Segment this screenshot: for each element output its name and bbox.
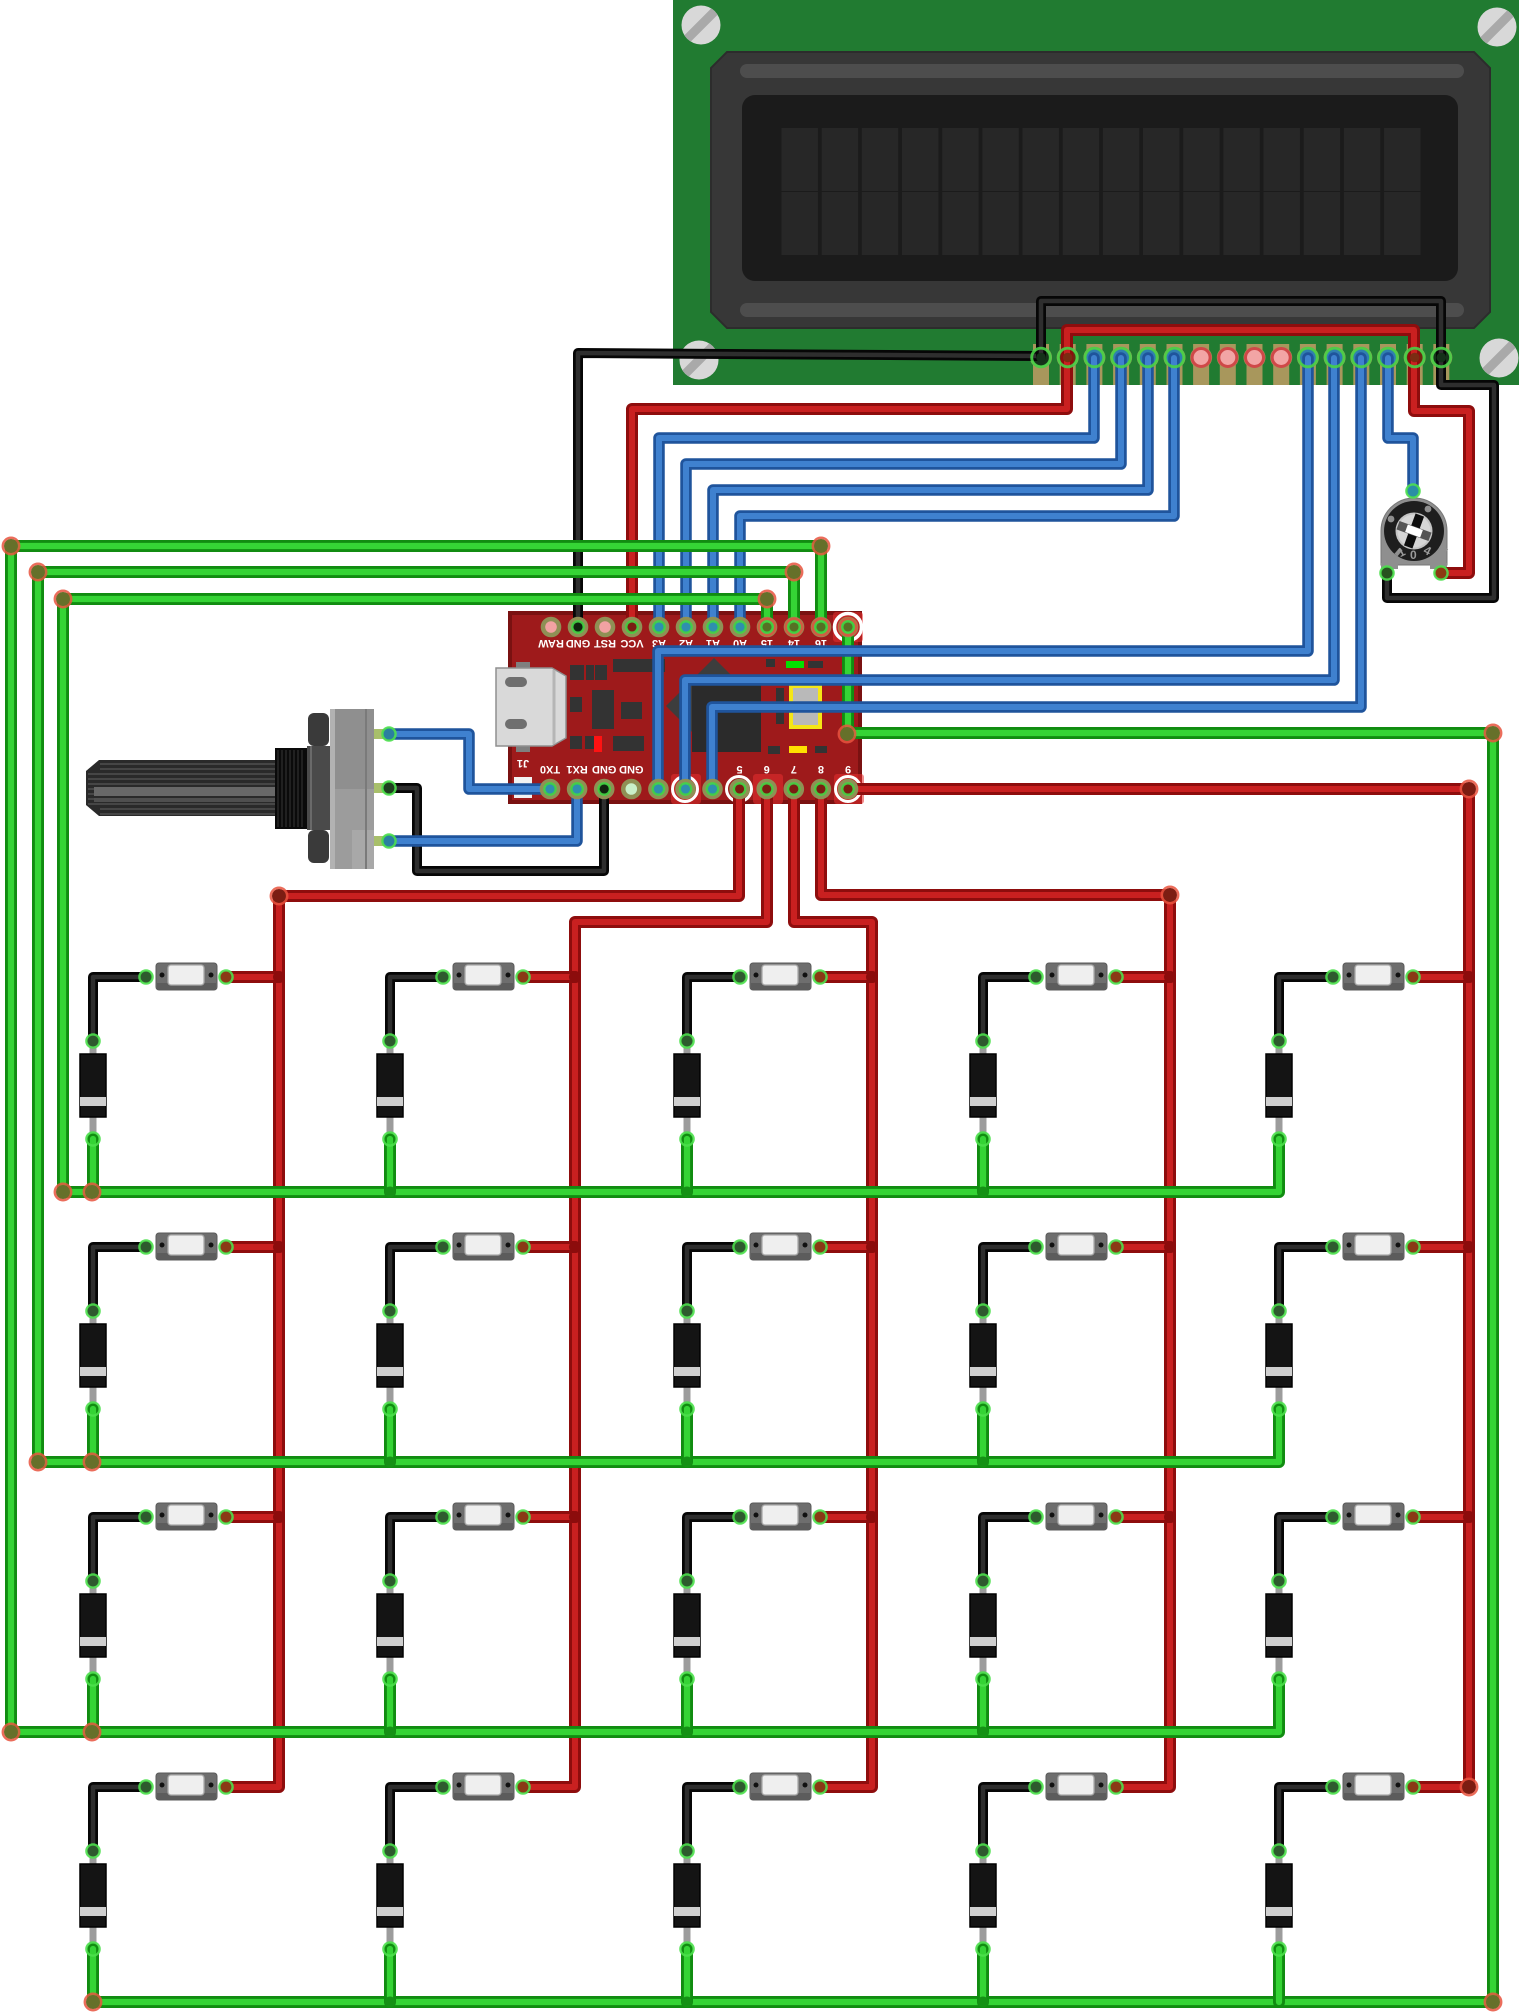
diode D12 <box>377 1575 403 1685</box>
switch S4 <box>1030 963 1122 990</box>
switch S18 <box>734 1773 826 1800</box>
wire diode row1 col2 to ground bus stub <box>384 1139 396 1192</box>
switch S15 <box>1327 1503 1419 1530</box>
wire switch row2 col1 to column bus stub <box>226 1241 279 1253</box>
svg-text:RAW: RAW <box>538 637 564 649</box>
wire diode row4 col4 to ground bus stub <box>977 1949 989 2002</box>
LED2 green LED <box>786 661 804 668</box>
wire switch row1 col5 to column bus stub <box>1413 971 1469 983</box>
RV2 trim potentiometer 104 <box>1381 485 1448 580</box>
svg-text:GND: GND <box>592 763 617 775</box>
svg-text:8: 8 <box>818 763 824 775</box>
diode D8 <box>674 1305 700 1415</box>
diode D5 <box>1266 1035 1292 1145</box>
switch S10 <box>1327 1233 1419 1260</box>
LCD character cells 16x2 <box>782 128 1421 255</box>
wire switch row3 col3 to column bus stub <box>820 1511 872 1523</box>
junction dots on green row buses <box>385 1187 989 2008</box>
component pin connection rings <box>86 484 1447 1955</box>
wire switch S10 to diode D10 <box>1279 1247 1333 1311</box>
wire switch S17 to diode D17 <box>390 1787 443 1851</box>
wire Pro Micro pin3 to LCD pin12 <box>685 358 1334 789</box>
Pro Micro pin rings <box>542 619 857 798</box>
diode D20 <box>1266 1845 1292 1955</box>
Y1 crystal (yellow outline) <box>791 686 820 727</box>
switch S13 <box>734 1503 826 1530</box>
wire switch row2 col4 to column bus stub <box>1116 1241 1170 1253</box>
wire diode row2 col3 to ground bus stub <box>681 1409 693 1462</box>
wire switch S13 to diode D13 <box>687 1517 740 1581</box>
wire switch S12 to diode D12 <box>390 1517 443 1581</box>
wire switch row3 col4 to column bus stub <box>1116 1511 1170 1523</box>
switch S8 <box>734 1233 826 1260</box>
USB micro-B connector <box>496 662 566 752</box>
wire diode row3 col1 to ground bus stub <box>87 1679 99 1732</box>
diode D3 <box>674 1035 700 1145</box>
switch S16 <box>140 1773 232 1800</box>
diode D18 <box>674 1845 700 1955</box>
svg-text:GND: GND <box>566 637 591 649</box>
wire switch S16 to diode D16 <box>93 1787 146 1851</box>
wire Pro Micro pin14 row2 ground bus <box>38 572 1279 1462</box>
svg-text:6: 6 <box>764 763 770 775</box>
switch S1 <box>140 963 232 990</box>
wire LCD pin14 to trimmer wiper <box>1388 358 1413 491</box>
wire diode row3 col2 to ground bus stub <box>384 1679 396 1732</box>
LCD bezel frame <box>711 52 1490 328</box>
wire switch S7 to diode D7 <box>390 1247 443 1311</box>
switch S9 <box>1030 1233 1122 1260</box>
wire Pro Micro pin8 column 4 bus <box>821 789 1170 1787</box>
wire pot wiper to Pro Micro GND <box>389 788 604 871</box>
LCD mounting screw bottom-left <box>676 337 722 383</box>
LED1 red power LED <box>594 736 602 752</box>
wire diode row2 col4 to ground bus stub <box>977 1409 989 1462</box>
wire Pro Micro pin7 column 3 bus <box>794 789 872 1787</box>
switch S19 <box>1030 1773 1122 1800</box>
diode D4 <box>970 1035 996 1145</box>
wire switch row1 col3 to column bus stub <box>820 971 872 983</box>
diode D10 <box>1266 1305 1292 1415</box>
wire switch S5 to diode D5 <box>1279 977 1333 1041</box>
diode D7 <box>377 1305 403 1415</box>
wire Pro Micro pin9 column 5 bus <box>848 789 1469 1787</box>
svg-text:GND: GND <box>619 763 644 775</box>
wire switch S9 to diode D9 <box>983 1247 1036 1311</box>
Pro Micro pin wire-end discs <box>545 622 853 794</box>
svg-text:RX1: RX1 <box>566 763 587 775</box>
diode D11 <box>80 1575 106 1685</box>
wire Pro Micro pin2 to LCD pin11 <box>658 358 1308 789</box>
wire diode row4 col3 to ground bus stub <box>681 1949 693 2002</box>
wire Pro Micro A0 to LCD pin6 <box>740 358 1174 627</box>
wire switch row3 col1 to column bus stub <box>226 1511 279 1523</box>
LCD pin header pads (pins 1-16) <box>1030 344 1452 385</box>
wire switch S8 to diode D8 <box>687 1247 740 1311</box>
diode D17 <box>377 1845 403 1955</box>
wire switch row2 col5 to column bus stub <box>1413 1241 1469 1253</box>
wire Pro Micro pin15 row1 ground bus <box>63 599 1279 1192</box>
wire switch row2 col3 to column bus stub <box>820 1241 872 1253</box>
wire diode row2 col2 to ground bus stub <box>384 1409 396 1462</box>
diode D13 <box>674 1575 700 1685</box>
LCD screen area <box>742 95 1458 281</box>
svg-text:VCC: VCC <box>620 637 643 649</box>
wire Pro Micro pin6 column 2 bus <box>523 789 767 1787</box>
Pro Micro bottom pin row (TX0..9) <box>541 780 858 799</box>
wire Pro Micro pin4 to LCD pin13 <box>712 358 1361 789</box>
wire diode row3 col3 to ground bus stub <box>681 1679 693 1732</box>
switch S11 <box>140 1503 232 1530</box>
wire switch row1 col4 to column bus stub <box>1116 971 1170 983</box>
wire Pro Micro GND to LCD pin1 <box>578 353 1041 627</box>
wire switch row3 col2 to column bus stub <box>523 1511 575 1523</box>
wire diode row4 col2 to ground bus stub <box>384 1949 396 2002</box>
switch S3 <box>734 963 826 990</box>
wire LCD pin1 to LCD pin16 to trimmer left pin <box>1041 301 1494 598</box>
svg-text:5: 5 <box>737 763 743 775</box>
LCD mounting screw top-left <box>678 2 724 48</box>
svg-text:RST: RST <box>594 637 616 649</box>
switch S2 <box>437 963 529 990</box>
wire switch row1 col2 to column bus stub <box>523 971 575 983</box>
diode D15 <box>1266 1575 1292 1685</box>
svg-text:7: 7 <box>791 763 797 775</box>
switch S5 <box>1327 963 1419 990</box>
wire Pro Micro A2 to LCD pin4 <box>686 358 1121 627</box>
LCD pin connection rings <box>1032 348 1451 367</box>
wire diode row1 col1 to ground bus stub <box>87 1139 99 1192</box>
Pro Micro top pin row (RAW..16,+) <box>542 618 858 637</box>
bendpoint rings (red nets) <box>271 888 287 904</box>
wire pot pin3 to Pro Micro RX1 <box>389 789 577 841</box>
wire switch S11 to diode D11 <box>93 1517 146 1581</box>
LCD pin wire-end discs <box>1063 353 1073 363</box>
wire switch S2 to diode D2 <box>390 977 443 1041</box>
switch S12 <box>437 1503 529 1530</box>
bendpoint rings (green nets) <box>3 538 19 554</box>
wire Pro Micro pin16 row3 ground bus <box>11 546 1279 1732</box>
svg-text:9: 9 <box>845 763 851 775</box>
wire switch S14 to diode D14 <box>983 1517 1036 1581</box>
wire diode row4 col5 to ground bus stub <box>1273 1949 1285 2002</box>
wire switch S6 to diode D6 <box>93 1247 146 1311</box>
svg-text:0: 0 <box>1410 548 1417 562</box>
diode D19 <box>970 1845 996 1955</box>
wire diode row3 col4 to ground bus stub <box>977 1679 989 1732</box>
U1 Pro Micro board (rotated 180) <box>510 613 860 802</box>
wire switch S20 to diode D20 <box>1279 1787 1333 1851</box>
switch S7 <box>437 1233 529 1260</box>
wire diode row1 col4 to ground bus stub <box>977 1139 989 1192</box>
wire VCC to LCD pin2/pin15 and trimmer right pin <box>632 330 1469 627</box>
wire switch S3 to diode D3 <box>687 977 740 1041</box>
Pro Micro SMD components <box>570 659 827 754</box>
LCD mounting screw bottom-right <box>1476 335 1522 381</box>
diode D14 <box>970 1575 996 1685</box>
U1 MCU chip (diamond) <box>666 658 762 754</box>
junction dots on red column buses <box>273 971 1475 1523</box>
switch S14 <box>1030 1503 1122 1530</box>
switch S6 <box>140 1233 232 1260</box>
wire switch S18 to diode D18 <box>687 1787 740 1851</box>
wire switch S4 to diode D4 <box>983 977 1036 1041</box>
switch S17 <box>437 1773 529 1800</box>
LCD bezel top slot <box>740 64 1464 78</box>
wire Pro Micro A1 to LCD pin5 <box>713 358 1148 627</box>
LCD mounting screw top-right <box>1474 4 1520 50</box>
wire pot pin1 to Pro Micro TX0 <box>389 734 550 789</box>
diode D2 <box>377 1035 403 1145</box>
wire switch S19 to diode D19 <box>983 1787 1036 1851</box>
RV1 rotary potentiometer <box>86 709 396 869</box>
wire switch row2 col2 to column bus stub <box>523 1241 575 1253</box>
wire switch S1 to diode D1 <box>93 977 146 1041</box>
selection highlight squares and rings on Pro Micro pins <box>671 612 864 804</box>
wire diode row2 col1 to ground bus stub <box>87 1409 99 1462</box>
diode D16 <box>80 1845 106 1955</box>
wire Pro Micro pin5 column 1 bus <box>226 789 739 1787</box>
Pro Micro silk labels (rotated 180) <box>517 637 851 775</box>
wire switch row1 col1 to column bus stub <box>226 971 279 983</box>
diode D1 <box>80 1035 106 1145</box>
yellow SMD <box>789 746 807 753</box>
wire switch row3 col5 to column bus stub <box>1413 1511 1469 1523</box>
J1 solder jumper <box>514 777 532 798</box>
switch S20 <box>1327 1773 1419 1800</box>
LCD1 16x2 display module PCB <box>673 0 1519 385</box>
svg-text:J1: J1 <box>517 757 529 769</box>
wire Pro Micro A3 to LCD pin3 <box>659 358 1094 627</box>
wire Pro Micro pin10(+) to row4 ground bus (green) <box>93 627 1493 2002</box>
diode D6 <box>80 1305 106 1415</box>
diode D9 <box>970 1305 996 1415</box>
svg-text:TX0: TX0 <box>540 763 560 775</box>
wire switch S15 to diode D15 <box>1279 1517 1333 1581</box>
LCD bezel bottom slot <box>740 303 1464 317</box>
component pin end discs <box>87 485 1446 1856</box>
wire diode row1 col3 to ground bus stub <box>681 1139 693 1192</box>
